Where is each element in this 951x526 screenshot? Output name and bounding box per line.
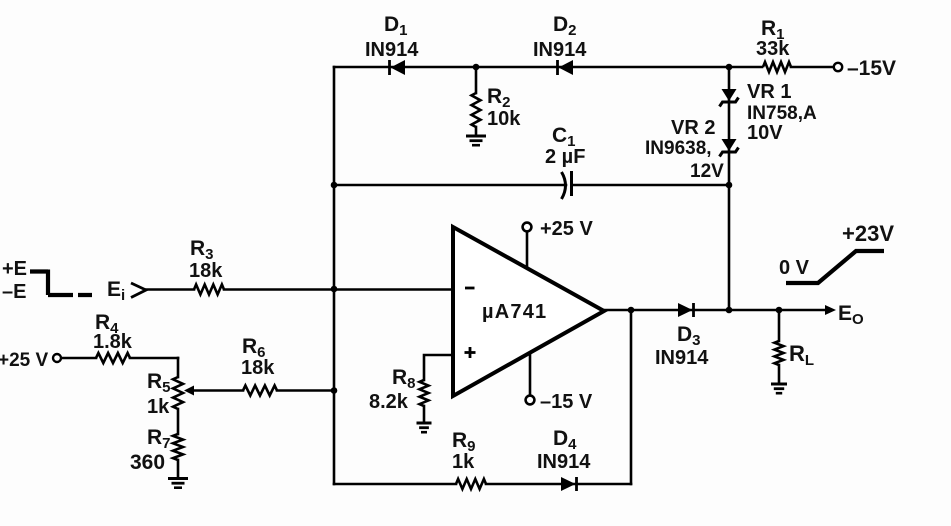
ground (R8): [417, 423, 432, 432]
svg-text:18k: 18k: [189, 260, 223, 282]
svg-text:2 µF: 2 µF: [545, 146, 585, 168]
wire: RL to ground stem: [778, 365, 781, 384]
junction: inverting input / left bus: [331, 286, 338, 293]
svg-text:8.2k: 8.2k: [369, 391, 409, 413]
junction: output / down-leg: [628, 307, 635, 314]
svg-text:18k: 18k: [241, 357, 275, 379]
svg-text:+E: +E: [2, 258, 27, 280]
svg-text:IN914: IN914: [655, 347, 709, 369]
op-amp U1 uA741: [453, 227, 604, 396]
wire: bottom feedback rail through R9 and D4: [334, 483, 631, 486]
wire: output line from op-amp through D3 to Eo arrow: [604, 309, 827, 312]
svg-text:12V: 12V: [690, 161, 724, 182]
svg-text:IN9638,: IN9638,: [645, 138, 712, 159]
terminal: op-amp -15V pin: [526, 396, 535, 405]
wire: R8 to ground stem: [423, 406, 426, 423]
svg-text:µA741: µA741: [482, 301, 547, 323]
svg-text:+25 V: +25 V: [540, 218, 593, 240]
resistor R1 33k: [763, 62, 791, 72]
diode D1 1N914 (points left): [390, 60, 406, 75]
svg-text:VR 1: VR 1: [747, 81, 791, 103]
zener VR2 1N963B (points down): [720, 139, 739, 157]
svg-text:1k: 1k: [452, 451, 475, 473]
svg-text:–E: –E: [2, 281, 26, 303]
input step waveform (+E/-E): [30, 270, 92, 296]
svg-text:1.8k: 1.8k: [93, 331, 133, 353]
resistor R6 18k: [243, 386, 277, 396]
wire: output down-leg to bottom feedback rail: [630, 310, 633, 484]
terminal: op-amp +25V pin: [523, 223, 532, 232]
diode D2 1N914 (points left): [558, 60, 574, 75]
Eo output arrowhead: [825, 305, 836, 315]
wire: top feedback rail (D1/D2 rail): [334, 66, 834, 69]
junction: R1 / zener bus / top rail: [726, 64, 733, 71]
resistor R7 360: [173, 434, 183, 460]
ground (R2): [466, 136, 486, 145]
wire: R2 branch down from top rail: [475, 67, 478, 93]
svg-text:1k: 1k: [147, 396, 170, 418]
junction: R6 / left bus: [331, 387, 338, 394]
svg-text:–15 V: –15 V: [540, 391, 593, 413]
svg-text:IN758,A: IN758,A: [747, 103, 817, 124]
svg-text:33k: 33k: [756, 38, 790, 60]
svg-text:360: 360: [130, 451, 165, 474]
wire: zener vertical bus (VR1/VR2) down to output node: [728, 67, 731, 310]
wire: op-amp +25V supply lead: [526, 232, 529, 267]
junction: R2 / top rail: [473, 64, 480, 71]
wire: inverting input line from Ei through R3 to op-amp: [146, 288, 453, 291]
svg-text:VR 2: VR 2: [671, 117, 715, 139]
svg-text:IN914: IN914: [533, 39, 587, 61]
svg-text:0 V: 0 V: [779, 257, 810, 279]
svg-text:–15V: –15V: [847, 57, 896, 80]
diode D4 1N914 (points right): [561, 477, 577, 491]
svg-text:10k: 10k: [487, 108, 521, 130]
terminal: -15V supply: [834, 63, 842, 71]
R5 wiper arrow: [184, 386, 194, 396]
junction: zener bus / output line: [726, 307, 733, 314]
wire: R5 wiper through R6 to left bus: [193, 389, 334, 392]
wire: non-inverting input to R8 corner: [424, 355, 453, 380]
wire: op-amp -15V supply lead: [529, 355, 532, 395]
ground (R7 divider): [168, 479, 188, 488]
resistor RL load: [775, 341, 784, 365]
svg-text:10V: 10V: [747, 122, 783, 144]
terminal: +25V supply (left): [53, 354, 61, 362]
wire: left feedback vertical bus: [333, 67, 336, 484]
ground (RL): [771, 384, 787, 393]
resistor R8 8.2k: [420, 380, 429, 406]
wire: divider vertical into R5: [177, 358, 180, 377]
svg-text:+25 V: +25 V: [0, 350, 49, 371]
resistor R2 10k: [472, 93, 481, 127]
diode D3 1N914 (points right): [678, 303, 694, 317]
resistor R3 18k: [194, 285, 224, 295]
capacitor C1 2uF: [562, 171, 572, 199]
zener VR1 1N758A (points down): [720, 89, 739, 107]
resistor R4 1.8k: [96, 353, 130, 363]
wire: +25V supply through R4 to divider top: [61, 357, 178, 360]
junction: RL / output line: [776, 307, 783, 314]
resistor R9 1k: [456, 479, 486, 489]
svg-text:IN914: IN914: [537, 451, 591, 473]
op-amp inverting pin mark: [465, 287, 475, 290]
junction: C1 rail / zener bus: [726, 182, 733, 189]
wire: R7 to ground stem: [177, 460, 180, 478]
wire: C1 rail from left bus to zener bus: [334, 184, 729, 187]
wire: R5 to R7 link: [177, 409, 180, 434]
svg-text:+23V: +23V: [842, 221, 894, 246]
resistor R5 1k potentiometer: [173, 377, 183, 409]
output ramp waveform (0V to +23V): [786, 251, 884, 283]
wire: R2 to ground stem: [475, 127, 478, 136]
svg-text:IN914: IN914: [365, 39, 419, 61]
input chevron at Ei: [131, 283, 146, 298]
op-amp non-inverting pin mark: [465, 347, 476, 358]
wire: RL branch down from output: [778, 310, 781, 341]
junction: C1 rail / left bus: [331, 182, 338, 189]
